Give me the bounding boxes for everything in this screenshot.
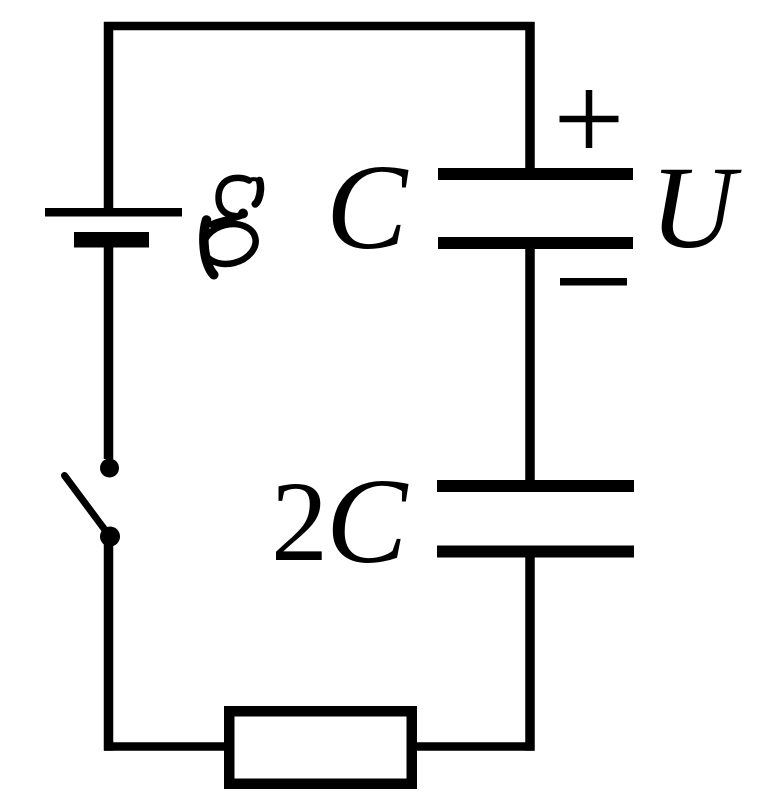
- capacitor 2C bottom plate: [437, 546, 634, 558]
- label 2C (lower capacitor): [271, 454, 409, 589]
- wire bottom right (resistor to corner): [415, 742, 534, 751]
- battery E short negative plate: [74, 232, 149, 248]
- switch bottom contact dot: [100, 527, 120, 547]
- svg-text:C: C: [326, 454, 409, 589]
- switch lever: [65, 476, 109, 535]
- wire left middle (battery to switch): [104, 240, 114, 459]
- switch top contact dot: [100, 459, 119, 478]
- plus sign polarity mark: [560, 90, 619, 148]
- resistor R: [229, 711, 412, 784]
- wire right lower (capacitor 2C to bottom rail): [525, 555, 535, 751]
- capacitor C bottom plate: [438, 237, 633, 249]
- label EMF script E: [199, 178, 260, 275]
- svg-text:2: 2: [271, 458, 328, 585]
- wire bottom left (corner to resistor): [104, 742, 226, 751]
- wire top: [104, 22, 534, 31]
- minus sign polarity mark: [560, 278, 627, 286]
- capacitor C top plate: [438, 168, 633, 180]
- wire left upper (top rail to battery): [104, 22, 114, 212]
- svg-text:U: U: [650, 142, 742, 273]
- battery E long positive plate: [45, 208, 182, 217]
- wire right middle (capacitor C to capacitor 2C): [525, 247, 535, 483]
- wire right upper (top rail to capacitor C): [525, 22, 535, 170]
- capacitor 2C top plate: [437, 480, 634, 492]
- svg-text:C: C: [326, 140, 409, 275]
- wire left lower (switch to bottom rail): [104, 540, 114, 751]
